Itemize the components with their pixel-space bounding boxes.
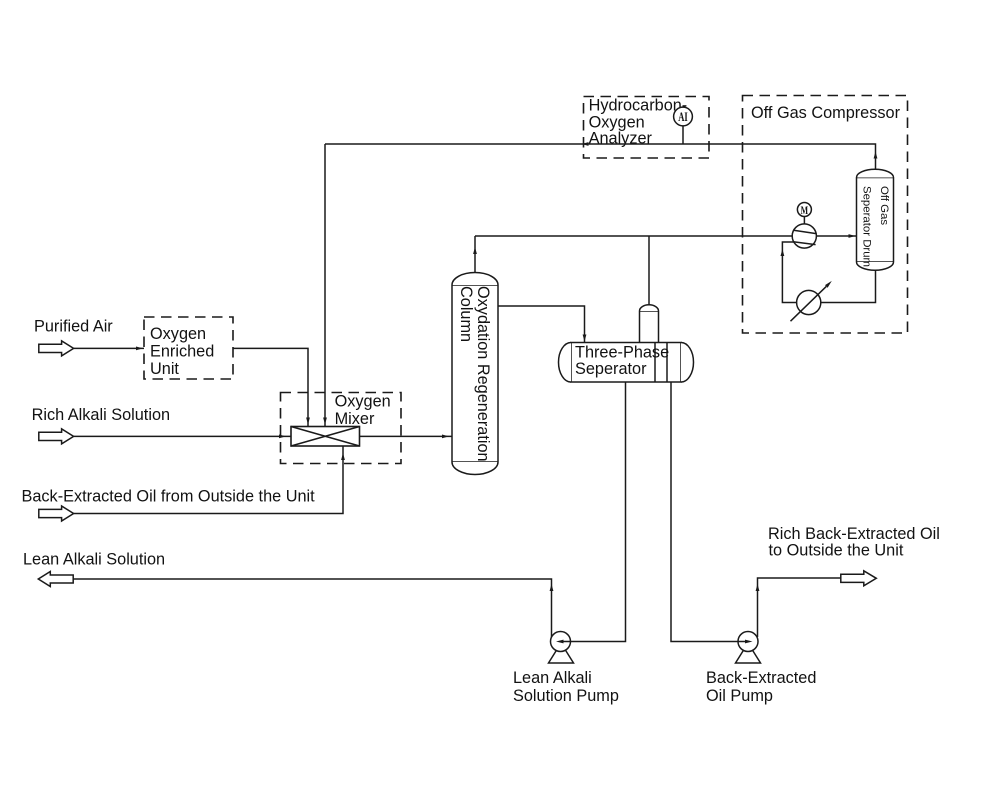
wire: back-extracted oil to mixer bottom (74, 446, 343, 514)
svg-text:Off Gas Compressor: Off Gas Compressor (751, 104, 901, 122)
svg-text:Column: Column (457, 286, 475, 342)
wire: rich alkali solution to mixer (74, 435, 291, 437)
svg-text:Three-Phase: Three-Phase (575, 343, 669, 361)
arrowhead up into mixer bottom (341, 453, 345, 460)
wire: recycle gas down into mixer (324, 144, 326, 427)
arrowhead down into separator (583, 335, 587, 342)
svg-text:M: M (801, 203, 809, 217)
compressor K1 (792, 224, 816, 248)
vessel: Oxydation Regeneration Column (452, 273, 498, 475)
wire: separator vapour riser to gas header (648, 236, 650, 305)
arrowhead left at analyzer box (582, 142, 589, 146)
svg-text:Off Gas: Off Gas (878, 186, 890, 225)
label: Oxygen Enriched Unit (150, 325, 214, 378)
wire: mixer outlet to oxydation regeneration column (360, 435, 453, 437)
svg-text:Unit: Unit (150, 360, 179, 378)
label: Oxydation Regeneration Column (rotated) (457, 286, 492, 462)
svg-text:Oxygen: Oxygen (335, 393, 391, 411)
label: Three-Phase Seperator (575, 343, 669, 378)
arrowhead into oxygen enriched unit (136, 347, 143, 351)
label: Rich Back-Extracted Oil to Outside the Unit (768, 525, 940, 559)
wire: column overhead riser (474, 236, 476, 273)
svg-text:Mixer: Mixer (335, 410, 375, 428)
block arrow: Rich Alkali Solution inlet (39, 429, 74, 444)
svg-text:Oil Pump: Oil Pump (706, 687, 773, 705)
dashed box: Off Gas Compressor (743, 96, 908, 334)
block arrow: Purified Air inlet (39, 341, 74, 356)
arrowhead up on column riser (473, 247, 477, 254)
wire: column side outlet to separator (498, 306, 585, 343)
block arrow: Lean Alkali Solution outlet (points left) (38, 572, 73, 587)
svg-text:Analyzer: Analyzer (589, 130, 653, 148)
arrowhead up on pump discharge (550, 584, 554, 591)
wire: back-extracted oil pump discharge (758, 578, 841, 637)
svg-text:Purified Air: Purified Air (34, 318, 113, 336)
svg-text:Seperator Drum: Seperator Drum (861, 186, 873, 267)
block arrow: Rich Back-Extracted Oil outlet (841, 571, 877, 586)
instrument circle AI (674, 107, 693, 126)
block arrow: Back-Extracted Oil inlet (39, 506, 74, 521)
wire: separator oil outlet to back-extracted oil pump (671, 382, 738, 642)
svg-text:Oxydation Regeneration: Oxydation Regeneration (474, 286, 492, 462)
motor M on compressor (803, 217, 805, 225)
wire: recycle gas line from drum top to mixer (325, 144, 876, 170)
arrowhead into column (442, 435, 449, 439)
wire: recycle valve to compressor suction (782, 242, 796, 303)
wire: oxygen enriched unit to oxygen mixer (right then down) (233, 348, 308, 426)
wire: gas header to compressor (475, 235, 792, 237)
wire: separator bottom outlet to lean alkali pump (571, 382, 626, 642)
pump P1: Lean Alkali Solution Pump (549, 632, 574, 664)
pump P2: Back-Extracted Oil Pump (736, 632, 761, 664)
arrowhead down into mixer (oxygen line) (306, 418, 310, 425)
vessel: Three-Phase Seperator (559, 343, 694, 383)
svg-text:Lean Alkali Solution: Lean Alkali Solution (23, 550, 165, 568)
svg-text:Seperator: Seperator (575, 360, 647, 378)
arrowhead into drum (849, 234, 856, 238)
svg-text:Rich Back-Extracted Oil: Rich Back-Extracted Oil (768, 525, 940, 543)
label: Hydrocarbon-Oxygen Analyzer (589, 97, 688, 148)
wire: purified air to oxygen enriched unit (74, 347, 144, 349)
svg-text:Back-Extracted Oil from Outsid: Back-Extracted Oil from Outside the Unit (22, 488, 316, 506)
label: Oxygen Mixer (335, 393, 391, 428)
wire: lean alkali solution from pump to left outlet (73, 579, 551, 638)
static mixer M1 (rectangle with X) (291, 427, 360, 447)
wire: drum bottom to recycle valve (821, 270, 876, 302)
control valve on recycle (circle with diagonal arrow) (791, 281, 832, 321)
label: Lean Alkali Solution Pump (513, 669, 619, 705)
dashed box: Hydrocarbon-Oxygen Analyzer (584, 97, 710, 159)
svg-text:Solution Pump: Solution Pump (513, 687, 619, 705)
arrowhead down into mixer (recycle line) (323, 418, 327, 425)
wire: compressor discharge to drum (816, 235, 856, 237)
dashed box: Oxygen Enriched Unit (144, 317, 233, 379)
arrowhead up on recycle line (781, 249, 785, 256)
svg-text:Hydrocarbon-: Hydrocarbon- (589, 97, 688, 115)
arrowhead up on oil pump discharge (756, 584, 760, 591)
svg-text:AI: AI (678, 110, 688, 124)
svg-text:Oxygen: Oxygen (150, 325, 206, 343)
label: Back-Extracted Oil Pump (706, 669, 816, 705)
vessel: Off Gas Seperator Drum (857, 169, 894, 270)
nozzle on separator top (640, 311, 659, 343)
svg-text:Lean Alkali: Lean Alkali (513, 669, 592, 687)
arrowhead at mixer battery limit (279, 435, 286, 439)
arrowhead up at drum top riser (874, 152, 878, 159)
dashed box: Oxygen Mixer (281, 393, 402, 464)
instrument AI analyzer tap (682, 126, 684, 144)
svg-text:Back-Extracted: Back-Extracted (706, 669, 816, 687)
label: Off Gas Seperator Drum (rotated) (861, 186, 891, 267)
svg-text:Enriched: Enriched (150, 343, 214, 361)
svg-text:Rich Alkali Solution: Rich Alkali Solution (32, 406, 170, 424)
svg-text:to Outside the Unit: to Outside the Unit (769, 542, 904, 560)
